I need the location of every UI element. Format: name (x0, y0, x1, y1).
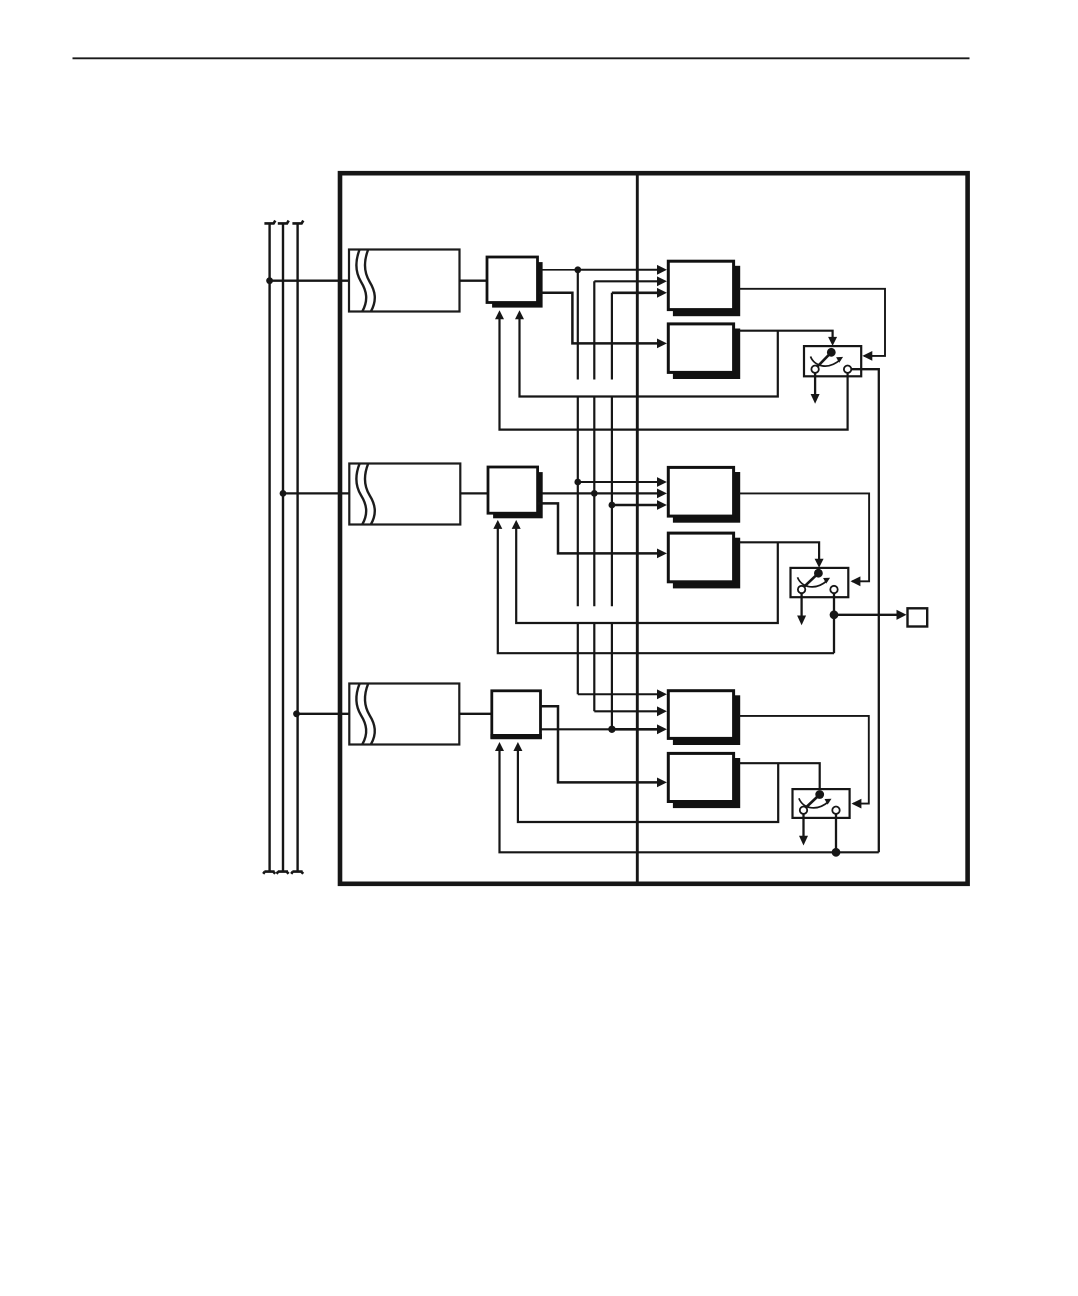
switch S1 arc arrow (811, 357, 844, 367)
divider wall (636, 173, 639, 884)
wire: channel-3 vertical net (x3) (611, 293, 613, 730)
cable entry box 3 (with strain squiggle) (349, 684, 459, 745)
wire: switch S3 left throw down arrow (799, 814, 808, 846)
MUL box 2 (shadowed) (668, 467, 740, 522)
ALU box 3 (shadowed) (668, 753, 740, 808)
wire: channel-1 arrow into MUL box 2 input 1 (578, 477, 667, 487)
node: bottom bus junction (832, 848, 841, 857)
wire: AFE1 lower output to ALU box 1 (539, 293, 667, 349)
switch S2 pole (804, 569, 823, 587)
switch S3 pole (806, 790, 824, 807)
wire: feedback drop row 2 (ALU tap to AFE2 inner input) (512, 520, 778, 623)
wire: tap A to cable box 1 (270, 280, 350, 282)
ALU box 2 (shadowed) (668, 533, 740, 588)
switch S2 throw contact left (798, 586, 805, 593)
ALU box 1 (shadowed) (668, 324, 740, 379)
wire: channel-1 arrow into MUL box 1 input 1 (578, 265, 667, 275)
switch S3 throw contact left (800, 807, 807, 814)
wire: channel-1 vertical net (x1) (577, 270, 579, 695)
switch box S1 (804, 346, 861, 376)
wire: switch S2 right throw down to output node (833, 593, 835, 653)
phase bus line C (291, 221, 303, 874)
wire: ALU2 output to switch 2 top feed (739, 542, 824, 567)
switch S1 pole (818, 348, 836, 367)
node: tap A junction (266, 277, 273, 284)
wire: tap B to cable box 2 (283, 492, 350, 494)
wire: MUL1 output to switch 1 right feed (739, 289, 885, 361)
switch S1 throw contact right (844, 366, 851, 373)
phase bus line B (277, 221, 289, 874)
wire: bottom bus to AFE3 outer input (495, 742, 879, 852)
node: tap B junction (280, 490, 287, 497)
wire: switch S2 left throw down arrow (797, 593, 806, 625)
wire: channel-2 arrow into MUL box 3 input 2 (594, 706, 667, 716)
node: channel-1 tee at row 2 (574, 479, 581, 486)
wire: channel-1 arrow into MUL box 3 input 1 (578, 689, 667, 699)
switch S1 throw contact left (811, 366, 818, 373)
wire: channel-2 arrow into MUL box 2 input 2 (594, 489, 667, 499)
wire: channel-2 vertical net (x2) (593, 281, 595, 711)
wire: AFE1 output to channel-1 net (540, 269, 578, 271)
switch S3 arc arrow (799, 798, 832, 808)
wire: switch S1 right throw bottom to AFE1 outer input (495, 310, 848, 429)
result pin square (908, 608, 928, 626)
wire: channel-3 arrow into MUL box 2 input 3 (612, 500, 667, 510)
node: channel-3 tee at row 2 (609, 502, 616, 509)
wire: AFE3 output to channel-3 net (541, 728, 612, 730)
wire: AFE2 output to channel-2 net (542, 492, 595, 494)
node: channel-2 net junction (591, 490, 598, 497)
wire: ALU3 output to switch 3 top feed (739, 763, 820, 794)
wire: switch S1 right throw to common sense line (851, 369, 879, 852)
MUL box 3 (shadowed) (668, 691, 740, 745)
node: tap C junction (293, 710, 300, 717)
wire: cable box 3 to AFE box 3 (459, 713, 492, 715)
switch box S2 (791, 568, 849, 597)
phase bus line A (263, 221, 275, 874)
wire: AFE2 lower output to ALU box 2 (538, 503, 667, 558)
AFE box 1 (shadowed) (487, 257, 543, 308)
wire: switch S3 right throw down to bottom bus (835, 814, 837, 852)
switch S2 arc arrow (798, 577, 831, 587)
node: channel-1 net junction (574, 266, 581, 273)
switch S3 throw contact right (832, 807, 839, 814)
wire: tap C to cable box 3 (297, 713, 352, 715)
AFE box 2 (shadowed) (488, 467, 543, 518)
switch S2 throw contact right (830, 586, 837, 593)
AFE box 3 (thick-bottom) (490, 691, 542, 737)
wire: AFE3 lower output to ALU box 3 (541, 706, 667, 787)
wire: channel-3 arrow into MUL box 3 input 3 (612, 724, 667, 734)
wire: MUL2 output to switch 2 right feed (739, 493, 869, 586)
outer enclosure box (340, 173, 968, 884)
wire: channel-2 riser elbow into MUL box 1 input 2 (594, 276, 667, 286)
wire: feedback drop row 3 (ALU tap to AFE3 inner input) (513, 742, 778, 822)
wire: switch S1 left throw down arrow (811, 373, 820, 404)
wire: feedback drop row 1 (ALU tap to AFE1 inner input) (515, 310, 778, 396)
wire: switch S2 bottom feedback to AFE2 outer input (493, 520, 834, 653)
wire: cable box 2 to AFE box 2 (460, 492, 488, 494)
node: channel-3 net junction (608, 726, 615, 733)
wire: channel-3 riser elbow into MUL box 1 input 3 (612, 288, 667, 298)
wire: output arrow to result pin (834, 610, 907, 620)
switch box S3 (793, 789, 850, 818)
wire: cable box 1 to AFE box 1 (460, 280, 488, 282)
MUL box 1 (shadowed) (668, 261, 740, 316)
header rule (73, 57, 970, 59)
wire: MUL3 output to switch 3 right feed (739, 716, 869, 809)
wire: ALU1 output to switch 1 top feed (739, 331, 837, 346)
node: output tap junction row 2 (830, 610, 839, 619)
cable entry box 1 (with strain squiggle) (349, 250, 460, 312)
cable entry box 2 (with strain squiggle) (349, 464, 460, 525)
